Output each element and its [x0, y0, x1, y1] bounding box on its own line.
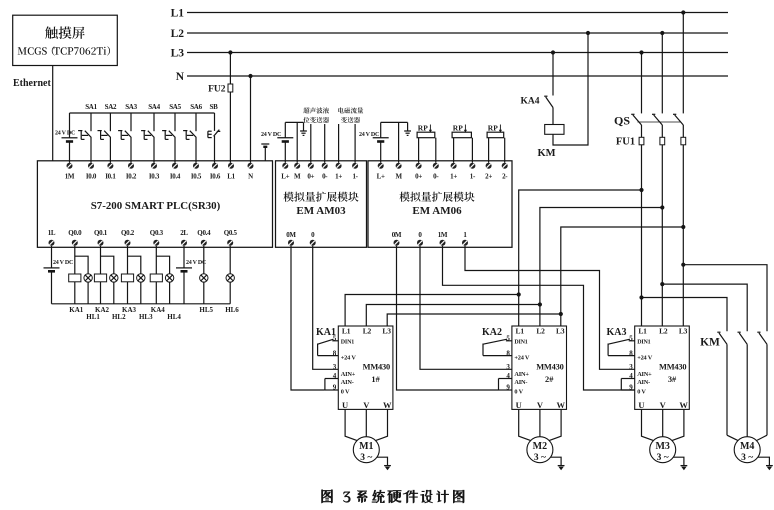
- svg-text:FU1: FU1: [616, 137, 635, 148]
- svg-text:Q0.5: Q0.5: [224, 229, 238, 237]
- svg-text:EM AM06: EM AM06: [412, 205, 462, 217]
- svg-text:L2: L2: [171, 28, 185, 40]
- svg-text:HL3: HL3: [139, 313, 153, 321]
- wire AM06 0 to drive2 AIN+: [420, 246, 512, 369]
- lamp HL4: [165, 274, 173, 282]
- terminal AM06 bottom 1: [462, 231, 468, 246]
- label FU2: [208, 84, 226, 94]
- svg-text:N: N: [248, 172, 253, 180]
- label EM AM06: [412, 205, 462, 217]
- wire output HL5 drop: [203, 246, 205, 304]
- label drive2 U V W: [516, 400, 566, 410]
- terminal AM06 1-: [469, 163, 476, 181]
- svg-text:1+: 1+: [450, 172, 457, 180]
- svg-text:M4: M4: [740, 441, 754, 452]
- motor M1: [353, 437, 379, 464]
- svg-text:RP: RP: [418, 123, 428, 132]
- label RP2: [453, 123, 463, 132]
- terminal AM03 M: [294, 163, 301, 181]
- svg-text:DIN1: DIN1: [341, 340, 354, 346]
- junction L3 to FU2: [228, 50, 232, 54]
- wire output KA2 drop: [100, 246, 102, 304]
- wire drive3 W to motor: [672, 409, 684, 440]
- wire N to PLC: [250, 76, 252, 163]
- wire line B to drive1 L2: [366, 305, 540, 327]
- svg-text:0 V: 0 V: [514, 388, 523, 395]
- label EM AM03: [296, 205, 346, 217]
- label RP1: [418, 123, 428, 132]
- wire phase a to drive2 L1: [519, 190, 642, 326]
- label L3: [171, 48, 185, 60]
- wire lamp branch HL2: [101, 256, 114, 304]
- wire AM06 1 to drive3 AIN+: [465, 246, 635, 369]
- svg-text:0+: 0+: [415, 172, 422, 180]
- label HL6: [225, 306, 239, 314]
- label HL1: [86, 313, 100, 321]
- svg-text:AIN+: AIN+: [341, 371, 356, 378]
- svg-text:L1: L1: [227, 172, 235, 180]
- terminal AM06 L+: [377, 163, 385, 181]
- wire AM06 0M to drive2 AIN-/0V: [397, 246, 499, 390]
- label EM AM06 module name (CJK): [399, 192, 474, 202]
- motor M3: [650, 437, 676, 464]
- ground AM06: [404, 122, 411, 135]
- svg-text:I0.3: I0.3: [149, 172, 160, 180]
- label RP3: [488, 123, 498, 132]
- svg-text:L3: L3: [171, 48, 185, 60]
- relay coil KA4: [150, 274, 162, 282]
- wire drive1 pin4-9 jumper: [325, 379, 338, 391]
- svg-text:HL5: HL5: [199, 306, 213, 314]
- contact KM pole 1: [717, 332, 727, 435]
- label HL4: [167, 313, 181, 321]
- terminal PLC I0.5: [191, 163, 202, 181]
- svg-text:L2: L2: [363, 327, 372, 336]
- svg-text:SA1: SA1: [85, 103, 97, 111]
- svg-text:KA1: KA1: [316, 327, 336, 338]
- svg-text:1M: 1M: [438, 231, 448, 239]
- inverter MM430 3# box: [635, 326, 690, 409]
- junction drive2 L2 to line B: [538, 302, 542, 306]
- contactor coil KM: [545, 125, 564, 135]
- contact KA1: [318, 339, 339, 355]
- svg-text:L2: L2: [536, 327, 545, 336]
- svg-text:KA4: KA4: [151, 306, 166, 314]
- svg-text:L1: L1: [516, 327, 525, 336]
- svg-text:AIN+: AIN+: [514, 371, 529, 378]
- svg-text:QS: QS: [614, 114, 630, 128]
- svg-text:+24 V: +24 V: [341, 354, 357, 361]
- terminal PLC I0.4: [170, 163, 181, 181]
- wire bus to QS pole 2: [661, 33, 663, 113]
- inverter MM430 2# box: [512, 326, 567, 409]
- junction phase a to drive2: [639, 188, 643, 192]
- terminal AM06 bottom 0: [417, 231, 423, 246]
- terminal PLC Q0.5: [224, 229, 238, 246]
- wire AM03 0 to drive1 AIN+: [313, 246, 339, 369]
- svg-text:2#: 2#: [545, 375, 554, 384]
- wire L2 bus: [187, 32, 728, 34]
- label SA6: [190, 103, 202, 111]
- label KA4: [521, 96, 540, 106]
- wire drive1 V to motor: [365, 409, 367, 436]
- label Ethernet: [13, 78, 51, 89]
- svg-text:L1: L1: [171, 8, 185, 20]
- wire lamp branch HL3: [128, 256, 141, 304]
- svg-text:M2: M2: [533, 441, 547, 452]
- svg-text:SA3: SA3: [125, 103, 137, 111]
- wire line C to drive1 L3: [387, 314, 561, 326]
- svg-text:I0.0: I0.0: [86, 172, 97, 180]
- svg-text:SB: SB: [210, 103, 219, 111]
- terminal AM03 bottom 0: [310, 231, 316, 246]
- svg-text:V: V: [363, 400, 370, 410]
- svg-text:MM430: MM430: [536, 363, 563, 372]
- label drive2 L1 L2 L3: [516, 327, 565, 336]
- lamp HL6: [226, 274, 234, 282]
- svg-text:M1: M1: [359, 441, 373, 452]
- label drive1 U V W: [342, 400, 392, 410]
- svg-text:SA5: SA5: [169, 103, 181, 111]
- svg-text:L3: L3: [679, 327, 688, 336]
- svg-text:M: M: [395, 172, 402, 180]
- svg-text:3 ~: 3 ~: [741, 453, 753, 463]
- wire drive2 V to motor: [539, 409, 541, 436]
- wire output KA3 drop: [127, 246, 129, 304]
- svg-text:3#: 3#: [668, 375, 677, 384]
- svg-text:AIN-: AIN-: [341, 379, 354, 386]
- svg-text:I0.2: I0.2: [126, 172, 137, 180]
- switch SA2: [98, 113, 111, 163]
- label HL3: [139, 313, 153, 321]
- svg-text:W: W: [679, 400, 688, 410]
- label SA3: [125, 103, 137, 111]
- terminal PLC Q0.2: [121, 229, 135, 246]
- svg-text:DIN1: DIN1: [637, 340, 650, 346]
- label KA1: [316, 327, 336, 338]
- label 24 V DC (AM06 supply): [359, 132, 379, 138]
- label MM430 2#: [536, 363, 563, 384]
- wire AM03 0+ to transmitter: [310, 124, 312, 163]
- terminal AM06 0-: [433, 163, 440, 181]
- relay coil KA2: [94, 274, 106, 282]
- motor M4: [734, 437, 760, 464]
- svg-text:Q0.1: Q0.1: [94, 229, 108, 237]
- battery 24VDC AM03: [277, 122, 293, 162]
- label electromagnetic flow transmitter (CJK): [338, 107, 363, 123]
- inverter MM430 1# box: [338, 326, 393, 409]
- svg-text:W: W: [383, 400, 392, 410]
- svg-text:Q0.3: Q0.3: [150, 229, 164, 237]
- label KA4: [151, 306, 166, 314]
- svg-text:I0.4: I0.4: [170, 172, 181, 180]
- svg-text:AIN+: AIN+: [637, 371, 652, 378]
- svg-text:3 ~: 3 ~: [534, 453, 546, 463]
- wire KM pole1 to M4: [727, 435, 738, 440]
- switch SB pushbutton: [208, 113, 220, 163]
- svg-text:HL1: HL1: [86, 313, 100, 321]
- junction phase b to drive2: [660, 205, 664, 209]
- terminal AM06 M: [395, 163, 402, 181]
- label 24 V DC (output supply 1): [53, 260, 73, 266]
- terminal PLC Q0.3: [150, 229, 164, 246]
- terminal PLC I0.3: [149, 163, 160, 181]
- EM AM03 box: [276, 161, 367, 248]
- svg-text:L2: L2: [659, 327, 668, 336]
- battery 24VDC input supply: [62, 113, 78, 163]
- label drive1 pin numbers: [333, 334, 337, 391]
- label drive3 U V W: [638, 400, 688, 410]
- svg-text:24 V DC: 24 V DC: [186, 260, 206, 266]
- svg-text:1L: 1L: [48, 229, 56, 237]
- wire drive2 W to motor: [549, 409, 561, 440]
- svg-text:+24 V: +24 V: [514, 354, 530, 361]
- svg-text:3 ~: 3 ~: [360, 453, 372, 463]
- svg-text:M3: M3: [655, 441, 669, 452]
- svg-text:AIN-: AIN-: [637, 379, 650, 386]
- terminal AM03 1+: [335, 163, 342, 181]
- wire KM coil to L2: [553, 33, 588, 145]
- svg-text:U: U: [342, 400, 348, 410]
- terminal AM03 0+: [307, 163, 314, 181]
- svg-text:KA1: KA1: [69, 306, 84, 314]
- svg-text:I0.5: I0.5: [191, 172, 202, 180]
- relay coil KA1: [69, 274, 81, 282]
- label KA1: [69, 306, 84, 314]
- wire phase a to KM pole 1: [642, 298, 728, 332]
- svg-text:24 V DC: 24 V DC: [53, 260, 73, 266]
- wire output KA1 drop: [74, 246, 76, 304]
- label drive1 pin names: [341, 340, 357, 396]
- terminal PLC 1M: [65, 163, 75, 181]
- terminal PLC 1L: [48, 229, 56, 246]
- svg-text:1#: 1#: [371, 375, 380, 384]
- switch QS pole 3: [673, 114, 683, 125]
- svg-text:Q0.4: Q0.4: [197, 229, 211, 237]
- terminal PLC I0.6: [210, 163, 221, 181]
- label drive2 pin names: [514, 340, 530, 396]
- svg-text:L3: L3: [382, 327, 391, 336]
- terminal PLC Q0.1: [94, 229, 108, 246]
- label EM AM03 module name (CJK): [283, 192, 358, 202]
- svg-text:V: V: [537, 400, 544, 410]
- terminal PLC L1: [227, 163, 235, 181]
- contact KA4: [544, 96, 553, 124]
- label drive1 L1 L2 L3: [342, 327, 391, 336]
- svg-text:24 V DC: 24 V DC: [55, 130, 75, 136]
- wire phase c to KM pole 3: [683, 265, 767, 332]
- wire AM03 0- to transmitter: [324, 124, 326, 163]
- switch QS pole 1: [631, 114, 641, 125]
- wire AM03 supply top: [285, 121, 303, 123]
- terminal PLC N: [248, 163, 254, 181]
- svg-text:L+: L+: [281, 172, 289, 180]
- svg-text:0M: 0M: [286, 231, 296, 239]
- svg-text:W: W: [557, 400, 566, 410]
- wire bus to QS pole 1: [641, 53, 643, 114]
- battery 24VDC output 1L: [44, 246, 60, 304]
- terminal AM06 1+: [450, 163, 457, 181]
- svg-text:V: V: [660, 400, 667, 410]
- switch SA5: [162, 113, 175, 163]
- terminal AM03 L+: [281, 163, 289, 181]
- terminal PLC Q0.0: [68, 229, 82, 246]
- junction bus tap QS pole 2: [660, 31, 664, 35]
- label 24 V DC (PLC sensor supply): [261, 132, 281, 138]
- wire drive3 U to motor: [642, 409, 654, 440]
- svg-text:0+: 0+: [307, 172, 314, 180]
- svg-text:I0.1: I0.1: [105, 172, 116, 180]
- switch QS pole 2: [652, 114, 662, 125]
- wire drive1 U to motor: [345, 409, 357, 440]
- potentiometer RP1: [417, 125, 436, 163]
- label MM430 1#: [363, 363, 390, 384]
- terminal AM03 1-: [352, 163, 359, 181]
- label KM coil: [537, 148, 555, 159]
- svg-text:I0.6: I0.6: [210, 172, 221, 180]
- junction drive2 L1 to line A: [517, 292, 521, 296]
- svg-text:FU2: FU2: [208, 84, 226, 94]
- terminal PLC I0.1: [105, 163, 116, 181]
- label drive3 pin numbers: [629, 334, 633, 391]
- label SB: [210, 103, 219, 111]
- ground motor M3: [673, 457, 687, 470]
- terminal PLC I0.0: [86, 163, 97, 181]
- junction phase c to drive2: [681, 225, 685, 229]
- wire AM03 1- to transmitter: [354, 124, 356, 163]
- label drive3 pin names: [637, 340, 653, 396]
- fuse FU1 pole 2: [660, 125, 665, 326]
- wire phase c to drive2 L3: [561, 227, 684, 326]
- svg-text:HL2: HL2: [112, 313, 126, 321]
- svg-text:2L: 2L: [180, 229, 188, 237]
- contact KM pole 3: [757, 332, 767, 435]
- wire drive1 W to motor: [376, 409, 388, 440]
- wire drive2 U to motor: [519, 409, 531, 440]
- svg-text:SA6: SA6: [190, 103, 202, 111]
- contact KA3: [608, 339, 635, 355]
- svg-text:2+: 2+: [485, 172, 492, 180]
- label L1: [171, 8, 185, 20]
- svg-text:HL6: HL6: [225, 306, 239, 314]
- wire AM06 M drop: [398, 122, 400, 162]
- svg-text:L1: L1: [638, 327, 647, 336]
- junction bus tap QS pole 1: [639, 50, 643, 54]
- svg-text:L1: L1: [342, 327, 351, 336]
- lamp HL5: [200, 274, 208, 282]
- junction phase a to KM: [639, 295, 643, 299]
- svg-text:MM430: MM430: [659, 363, 686, 372]
- svg-text:RP: RP: [488, 123, 498, 132]
- switch SA4: [141, 113, 154, 163]
- label touch screen (CJK): [45, 26, 85, 39]
- label S7-200 SMART PLC(SR30): [91, 200, 221, 212]
- label KM contacts: [700, 336, 720, 348]
- ground motor M4: [758, 457, 773, 470]
- svg-text:KA4: KA4: [521, 96, 540, 106]
- label KA3: [607, 327, 627, 338]
- label HL2: [112, 313, 126, 321]
- svg-text:AIN-: AIN-: [514, 379, 527, 386]
- wire bus to QS pole 3: [682, 13, 684, 114]
- label L2: [171, 28, 185, 40]
- wire AM03 1+ to transmitter: [338, 124, 340, 163]
- svg-text:Q0.0: Q0.0: [68, 229, 82, 237]
- svg-text:SA2: SA2: [105, 103, 117, 111]
- svg-text:HL4: HL4: [167, 313, 181, 321]
- wire phase b to KM pole 2: [662, 284, 747, 331]
- svg-text:MM430: MM430: [363, 363, 390, 372]
- svg-text:L+: L+: [377, 172, 385, 180]
- svg-text:KA2: KA2: [482, 327, 502, 338]
- svg-text:3: 3: [629, 363, 633, 371]
- wire L3 bus: [187, 52, 728, 54]
- label QS: [614, 114, 630, 128]
- label KA2: [482, 327, 502, 338]
- label SA4: [148, 103, 160, 111]
- label SA1: [85, 103, 97, 111]
- wire N bus: [187, 75, 728, 77]
- svg-text:Q0.2: Q0.2: [121, 229, 135, 237]
- switch SA1: [78, 113, 91, 163]
- ground motor M1: [377, 457, 391, 470]
- wire L3 to KA4 contact: [552, 53, 554, 96]
- caption figure 3 (CJK): [322, 490, 465, 503]
- terminal AM03 0-: [322, 163, 329, 181]
- label FU1: [616, 137, 635, 148]
- svg-text:KM: KM: [700, 336, 720, 348]
- relay coil KA3: [121, 274, 133, 282]
- junction phase b to KM: [660, 282, 664, 286]
- wire lamp branch HL1: [75, 256, 88, 304]
- svg-text:L3: L3: [556, 327, 565, 336]
- potentiometer RP2: [452, 125, 472, 163]
- terminal AM06 2+: [485, 163, 492, 181]
- svg-text:U: U: [638, 400, 644, 410]
- label KA3: [122, 306, 137, 314]
- label 24 V DC (input supply): [55, 130, 75, 136]
- wire lamp branch HL4: [156, 256, 169, 304]
- svg-text:0M: 0M: [392, 231, 402, 239]
- contact KA2: [483, 339, 512, 355]
- label MCGS (TCP7062Ti): [18, 46, 110, 55]
- potentiometer RP3: [487, 125, 505, 163]
- svg-text:3 ~: 3 ~: [657, 453, 669, 463]
- wire AM03 0M to drive1 AIN-/0V: [291, 246, 325, 390]
- junction L2 tap KM return: [586, 31, 590, 35]
- svg-text:+24 V: +24 V: [637, 354, 653, 361]
- label drive2 pin numbers: [506, 334, 510, 391]
- svg-text:RP: RP: [453, 123, 463, 132]
- svg-text:Ethernet: Ethernet: [13, 78, 51, 89]
- terminal AM06 0+: [415, 163, 422, 181]
- switch SA3: [118, 113, 131, 163]
- battery 24VDC AM06: [373, 122, 389, 162]
- svg-text:3: 3: [506, 363, 510, 371]
- wire AM06 1M to drive3 AIN-/0V: [443, 246, 635, 390]
- wire output KA4 drop: [155, 246, 157, 304]
- svg-text:N: N: [176, 71, 185, 83]
- junction drive2 L3 to line C: [559, 312, 563, 316]
- wire output common bus: [52, 303, 231, 305]
- label MM430 3#: [659, 363, 686, 384]
- label drive3 L1 L2 L3: [638, 327, 687, 336]
- terminal AM06 2-: [502, 163, 509, 181]
- junction N tap: [248, 74, 252, 78]
- contact KM pole 2: [738, 332, 748, 437]
- svg-text:KM: KM: [537, 148, 555, 159]
- wire Ethernet from HMI to PLC: [52, 66, 54, 161]
